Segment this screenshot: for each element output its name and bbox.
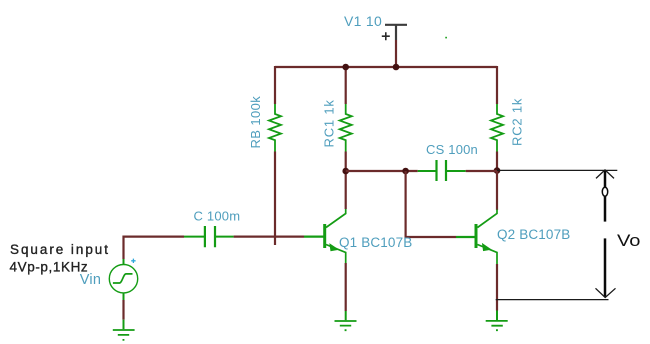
svg-text:4Vp-p,1KHz: 4Vp-p,1KHz — [10, 260, 89, 275]
Vo measurement bottom line — [496, 299, 609, 301]
wire V1 to top rail — [395, 40, 397, 67]
wire CS row right — [466, 170, 497, 172]
label 4Vp-p,1KHz — [10, 260, 89, 275]
ground under Vin — [113, 320, 135, 340]
Vo arrow down — [596, 238, 616, 297]
node junction RC1/CS — [342, 168, 349, 175]
ground under Q1 — [335, 311, 357, 330]
wire input corner — [124, 237, 185, 259]
label Vin — [80, 272, 101, 288]
svg-text:Vo: Vo — [617, 232, 641, 250]
node junction RC1/top rail — [342, 64, 349, 71]
resistor RC1 — [340, 104, 352, 152]
label RC2 1k — [510, 98, 525, 146]
transistor Q1 — [304, 209, 346, 263]
source Vin square-wave generator — [109, 259, 137, 300]
wire RB column lower — [274, 152, 276, 246]
resistor RC2 — [491, 104, 503, 152]
wire RC1 to Q1 collector node — [345, 152, 347, 210]
node junction V1/top rail — [393, 64, 400, 71]
wire RC2 node to Q2 collector — [496, 171, 498, 211]
node junction CS/Q2 base branch — [402, 168, 409, 175]
wire Q1 emitter to ground — [345, 263, 347, 311]
wire RB column upper — [274, 66, 276, 104]
wire RC2 to Vo node — [496, 152, 498, 171]
Vo measurement top line — [497, 169, 617, 171]
wire CS row left — [346, 170, 418, 172]
svg-text:V1 10: V1 10 — [344, 13, 382, 29]
svg-text:RC1 1k: RC1 1k — [322, 99, 337, 147]
wire Vin to ground — [122, 300, 124, 320]
wire RC2 column upper — [496, 66, 498, 104]
Vo probe marker — [602, 187, 607, 196]
wire RC1 column upper — [345, 66, 347, 104]
label CS 100n — [426, 142, 478, 157]
svg-text:Q1 BC107B: Q1 BC107B — [339, 235, 412, 250]
capacitor CS — [418, 160, 466, 181]
label Square input — [10, 242, 110, 257]
label Q1 BC107B — [339, 235, 412, 250]
label RB 100k — [248, 96, 263, 149]
wire Q2 emitter to ground — [496, 264, 498, 311]
svg-text:Vin: Vin — [80, 272, 101, 288]
capacitor C — [184, 226, 234, 247]
svg-text:C 100m: C 100m — [194, 209, 241, 224]
stray green dot artifact — [445, 37, 447, 39]
wire Q2 base branch horizontal — [405, 236, 457, 238]
label Vo — [617, 232, 641, 250]
wire C to Q1 base — [234, 236, 304, 238]
wire Q2 base branch vertical — [405, 171, 407, 237]
svg-text:Q2 BC107B: Q2 BC107B — [497, 227, 570, 242]
svg-text:RB 100k: RB 100k — [248, 96, 263, 149]
label C 100m — [194, 209, 241, 224]
svg-text:RC2 1k: RC2 1k — [510, 98, 525, 146]
ground under Q2 — [486, 311, 508, 331]
label V1 10 — [344, 13, 382, 29]
label Q2 BC107B — [497, 227, 570, 242]
svg-text:CS 100n: CS 100n — [426, 142, 478, 157]
resistor RB — [269, 104, 281, 152]
Vo arrow up — [596, 170, 614, 222]
transistor Q2 — [456, 210, 497, 265]
node junction RC2/CS/Vo — [494, 167, 501, 174]
svg-text:Square input: Square input — [10, 242, 110, 257]
source V1 battery symbol — [382, 25, 407, 40]
label RC1 1k — [322, 99, 337, 147]
wire top rail — [275, 66, 497, 68]
